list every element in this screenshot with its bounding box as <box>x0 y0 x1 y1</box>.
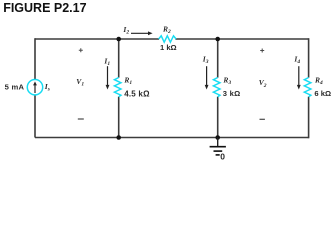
svg-text:Is: Is <box>44 82 50 93</box>
wire: node 0 to bottom-right corner <box>218 137 309 139</box>
svg-text:R2: R2 <box>162 24 171 35</box>
svg-text:I4: I4 <box>293 55 300 66</box>
current arrow I4 <box>297 66 301 89</box>
wire: bottom-left corner to node C <box>35 137 119 139</box>
ground <box>210 138 226 155</box>
wire: R1 bottom terminal down to node C <box>118 97 120 138</box>
svg-text:4.5 kΩ: 4.5 kΩ <box>124 89 150 98</box>
wire: top-right corner down to R4 top terminal <box>308 38 310 77</box>
svg-text:V2: V2 <box>259 78 267 89</box>
svg-text:1 kΩ: 1 kΩ <box>160 43 177 52</box>
current source Is (5 mA) <box>27 80 42 95</box>
wire: node C to node 0 <box>119 137 218 139</box>
node B junction dot <box>215 37 220 42</box>
current arrow I3 <box>205 66 209 89</box>
label V1 with polarity <box>76 48 84 119</box>
svg-text:R4: R4 <box>314 75 323 86</box>
wire: R4 bottom terminal down to bottom-right corner <box>308 97 310 139</box>
svg-text:3 kΩ: 3 kΩ <box>223 89 241 98</box>
svg-text:I2: I2 <box>122 25 129 36</box>
node 0 junction dot <box>215 135 220 140</box>
node A junction dot <box>116 37 121 42</box>
svg-text:V1: V1 <box>76 77 84 88</box>
current arrow I2 <box>131 31 153 35</box>
svg-text:0: 0 <box>220 152 225 162</box>
resistor R2 <box>159 36 176 42</box>
wire: current source down to bottom-left corner <box>34 95 36 137</box>
resistor R4 <box>304 78 311 97</box>
wire: node A to R2 left terminal <box>119 38 159 40</box>
svg-text:I3: I3 <box>202 55 209 66</box>
wire: node A down to R1 top terminal <box>118 39 120 78</box>
svg-text:R3: R3 <box>222 75 231 86</box>
resistor R1 <box>114 78 121 97</box>
wire: node B down to R3 top terminal <box>217 39 219 78</box>
wire: left branch, top-left corner down to current source <box>34 38 36 80</box>
svg-text:R1: R1 <box>123 75 132 86</box>
svg-text:FIGURE P2.17: FIGURE P2.17 <box>3 1 86 15</box>
wire: R2 right terminal to node B <box>175 38 217 40</box>
current arrow I1 <box>106 66 110 89</box>
svg-text:5 mA: 5 mA <box>5 83 25 92</box>
wire: node B to top-right corner <box>218 38 309 40</box>
wire: top-left corner to node A <box>35 38 119 40</box>
svg-text:6 kΩ: 6 kΩ <box>314 89 331 98</box>
wire: R3 bottom terminal down to node 0 <box>217 97 219 138</box>
label V2 with polarity <box>259 49 267 120</box>
svg-text:I1: I1 <box>103 57 110 68</box>
resistor R3 <box>213 78 220 97</box>
node C junction dot <box>116 135 121 140</box>
